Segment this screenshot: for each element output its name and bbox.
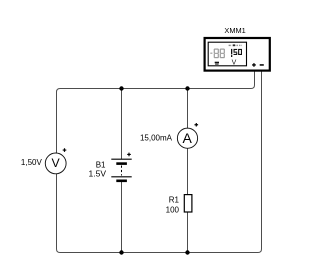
wire bottom: voltmeter bottom down, right along bottom, up to XMM1 - terminal — [57, 71, 262, 253]
svg-text:XMM1: XMM1 — [224, 26, 245, 35]
svg-text:V: V — [51, 156, 60, 170]
wire resistor branch bottom — [187, 212, 189, 253]
svg-text:100: 100 — [166, 206, 180, 215]
junction bottom battery node — [119, 250, 123, 254]
battery B1 — [111, 153, 131, 181]
junction top ammeter node — [185, 86, 189, 90]
multimeter - terminal — [260, 64, 264, 66]
wire battery branch bottom — [121, 181, 123, 253]
wire battery branch top — [121, 89, 123, 160]
wire ammeter branch top — [187, 89, 189, 129]
junction bottom resistor node — [185, 250, 189, 254]
svg-text:R1: R1 — [169, 196, 180, 205]
multimeter LCD ghost digits -88 — [210, 49, 225, 59]
multimeter + terminal — [252, 63, 256, 67]
svg-text:V: V — [232, 60, 237, 67]
wire top: XMM1 + terminal down and left to voltmeter top — [57, 71, 255, 153]
multimeter reading digits 1,50 — [231, 49, 242, 57]
ammeter probe (reads 15,00mA) — [177, 123, 198, 148]
junction top battery node — [119, 86, 123, 90]
multimeter battery indicator icon — [215, 62, 219, 65]
voltmeter probe (reads 1,50V) — [45, 148, 66, 174]
svg-text:1.5V: 1.5V — [89, 168, 107, 178]
multimeter annunciator ticks — [229, 44, 242, 46]
svg-text:A: A — [183, 130, 193, 146]
wire ammeter to resistor — [187, 148, 189, 195]
svg-text:1,50V: 1,50V — [21, 158, 43, 167]
resistor R1 — [184, 195, 192, 212]
multimeter XMM1 body — [205, 38, 270, 71]
svg-text:15,00mA: 15,00mA — [140, 133, 173, 142]
